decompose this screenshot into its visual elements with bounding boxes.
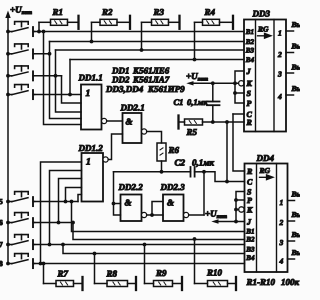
svg-text:0,1мк: 0,1мк bbox=[192, 158, 214, 168]
wire sw6 output bbox=[35, 222, 73, 224]
resistor R8 bbox=[95, 254, 137, 291]
wire DD1.1 out to DD2.1 in1 bbox=[107, 120, 123, 122]
svg-text:DD4: DD4 bbox=[256, 153, 275, 163]
svg-text:DD3: DD3 bbox=[252, 9, 271, 19]
junction C2 right bbox=[202, 170, 206, 174]
junction sw6 riser bbox=[57, 221, 61, 225]
wire sw8 output bus to DD4.B4 bbox=[35, 263, 245, 265]
svg-text:В2: В2 bbox=[245, 38, 255, 46]
wire DD3.C stub bbox=[233, 113, 244, 115]
svg-text:DD3,DD4: DD3,DD4 bbox=[105, 84, 144, 94]
svg-text:P: P bbox=[247, 99, 252, 108]
wire DD2.1 out to R6 bbox=[147, 132, 162, 144]
junction R1-bus bbox=[37, 30, 41, 34]
svg-text:DD2: DD2 bbox=[111, 75, 130, 85]
svg-text:R4: R4 bbox=[204, 7, 216, 17]
svg-text:R: R bbox=[246, 118, 253, 127]
svg-text:0,1мк: 0,1мк bbox=[187, 97, 208, 107]
DD3 output digits bbox=[277, 29, 282, 102]
+Upit arrow at DD4 K input bbox=[211, 219, 218, 223]
capacitor C1 bbox=[174, 83, 220, 122]
inversion bubble DD4 K bbox=[239, 207, 244, 212]
wire DD3 S stub bbox=[235, 92, 244, 94]
svg-text:DD1.1: DD1.1 bbox=[78, 73, 103, 83]
wire R6 bottom lead bbox=[161, 161, 163, 172]
wire DD2.2 out to DD2.3 bbox=[147, 214, 163, 216]
wire DD2.2 in1 stub bbox=[114, 203, 121, 205]
wire sw6 riser to DD1.2 in3 bbox=[59, 179, 82, 223]
capacitor C2 bbox=[175, 158, 215, 177]
svg-text:2: 2 bbox=[279, 218, 284, 227]
svg-text:В1: В1 bbox=[245, 28, 254, 36]
wire sw5 down to DD4.B1 bus bbox=[72, 202, 245, 232]
svg-text:В3: В3 bbox=[245, 246, 255, 254]
switch push-button at y=75.8 SB3 bbox=[8, 66, 35, 81]
junction rail-SB3 bbox=[6, 74, 10, 78]
resistor R3 bbox=[140, 7, 180, 52]
svg-text:DD1.2: DD1.2 bbox=[78, 143, 104, 153]
wire sw2 riser to B2 and down to DD1.1 in4 bbox=[50, 42, 82, 119]
gate DD1.2 4-input NOR bbox=[78, 143, 104, 202]
svg-text:R5: R5 bbox=[186, 127, 198, 137]
DD4 pin labels bbox=[245, 167, 255, 262]
wire sw5 output bbox=[35, 201, 78, 203]
svg-text:R7: R7 bbox=[57, 269, 69, 279]
DD3 output stubs Vyh1-4 bbox=[286, 30, 294, 32]
svg-text:DD2.3: DD2.3 bbox=[160, 182, 186, 192]
output bubble DD2.1 bbox=[142, 129, 147, 134]
output bubble DD2.3 bbox=[184, 212, 189, 217]
junction sw7 riser bbox=[48, 243, 52, 247]
junction rail-SB6 bbox=[6, 221, 10, 225]
junction sw3 riser bbox=[54, 74, 58, 78]
wire sw7 output bus bbox=[35, 244, 245, 246]
svg-text:S: S bbox=[247, 89, 252, 98]
wire R1 lead down bbox=[38, 22, 40, 31]
resistor R5 bbox=[179, 116, 203, 138]
switch push-button at y=222.5 SB6 bbox=[8, 213, 35, 228]
svg-text:В2: В2 bbox=[245, 236, 255, 244]
junction rail-SB4 bbox=[6, 93, 10, 97]
svg-text:C2: C2 bbox=[175, 158, 186, 168]
junction sw2 riser bbox=[48, 52, 52, 56]
resistor R9 bbox=[145, 245, 183, 291]
wire sw2 output bbox=[35, 53, 50, 55]
wire DD4 SPKJ bracket bbox=[236, 192, 245, 222]
junction rail-SB1 bbox=[6, 30, 10, 34]
wire DD3 JKSP bracket bbox=[235, 71, 244, 103]
gate DD1.1 4-input NOR bbox=[78, 73, 103, 130]
junction C1 bottom bbox=[211, 120, 215, 124]
wire R5 to DD3.R bbox=[203, 121, 245, 123]
svg-text:6: 6 bbox=[0, 218, 3, 227]
svg-text:В1: В1 bbox=[245, 228, 254, 236]
junction +U bracket J DD4 bbox=[234, 220, 238, 224]
svg-text:В4: В4 bbox=[245, 56, 255, 64]
svg-text:7: 7 bbox=[0, 240, 3, 249]
wire DD2.3 in1 bracket bbox=[152, 202, 163, 216]
svg-text:R: R bbox=[246, 167, 253, 176]
svg-text:1: 1 bbox=[280, 198, 284, 207]
resistor R4 bbox=[193, 7, 233, 61]
junction R10 tap bbox=[193, 237, 197, 241]
svg-text:2: 2 bbox=[277, 50, 282, 59]
junction sw7 branch bbox=[61, 243, 65, 247]
junction R2-bus bbox=[90, 40, 94, 44]
wire sw3 riser to B3 and down to DD1.1 in3 bbox=[56, 50, 82, 112]
junction R8 tap bbox=[93, 252, 97, 256]
values text R1-R10 100k bbox=[246, 277, 300, 287]
svg-text:Вы: Вы bbox=[291, 84, 301, 93]
svg-text:Вы: Вы bbox=[291, 248, 301, 257]
wire sw8 riser to DD1.2 in1 bbox=[41, 162, 82, 264]
wire vertical R-net to DD4.C line bbox=[226, 122, 228, 182]
gate DD2.1 NAND bbox=[120, 103, 145, 144]
svg-text:K: K bbox=[246, 205, 253, 214]
junction rail-SB8 bbox=[6, 262, 10, 266]
svg-text:В4: В4 bbox=[245, 254, 255, 262]
switch push-button at y=53.8 SB2 bbox=[8, 44, 35, 59]
wire sw5 riser to DD1.2 in4 bbox=[66, 188, 82, 202]
wire R4 lead down bbox=[194, 22, 196, 59]
svg-text:K: K bbox=[246, 79, 253, 88]
svg-text:DD2.1: DD2.1 bbox=[120, 103, 145, 113]
svg-text:5: 5 bbox=[0, 197, 3, 206]
wire C2 net down to DD2.2 input bbox=[114, 172, 121, 215]
resistor R2 bbox=[90, 7, 130, 43]
svg-text:Вы: Вы bbox=[291, 63, 301, 72]
svg-text:C1: C1 bbox=[174, 97, 184, 107]
junction rail-SB7 bbox=[6, 243, 10, 247]
wire sw6 down to DD4.B2 bus bbox=[73, 223, 245, 240]
svg-text:3: 3 bbox=[277, 70, 282, 79]
junction bracket K DD4 bbox=[234, 208, 238, 212]
IC DD3 K561IR9 register bbox=[244, 9, 286, 132]
svg-text:P: P bbox=[247, 196, 252, 205]
svg-text:RG: RG bbox=[257, 25, 269, 34]
resistor R10 bbox=[195, 239, 237, 290]
junction C1 top bbox=[211, 81, 215, 85]
svg-text:R1-R10: R1-R10 bbox=[246, 277, 276, 287]
junction rail-SB2 bbox=[6, 52, 10, 56]
svg-text:R10: R10 bbox=[206, 268, 223, 278]
inversion bubble DD3 K bbox=[239, 81, 244, 86]
gate DD2.2 NAND bbox=[118, 182, 144, 221]
svg-text:К561ИР9: К561ИР9 bbox=[147, 84, 185, 94]
svg-text:RG: RG bbox=[259, 166, 271, 175]
junction R3-bus bbox=[140, 48, 144, 52]
svg-text:100к: 100к bbox=[281, 277, 300, 287]
left power rail wire bbox=[7, 16, 9, 264]
wire sw1 branch to DD1.1 in5 bbox=[44, 32, 82, 125]
switch push-button at y=263.5 SB8 bbox=[8, 254, 35, 269]
output bubble DD1.1 bbox=[102, 118, 107, 123]
wire bus B3 to DD3.B3 bbox=[56, 49, 245, 51]
svg-text:R9: R9 bbox=[155, 268, 167, 278]
wire DD1.2 out up to DD2.1 in2 bbox=[108, 134, 122, 160]
resistor R1 bbox=[37, 7, 78, 33]
wire sw7 branch down to DD4.B3 bus bbox=[63, 245, 245, 254]
wire DD4 K stub bbox=[236, 209, 239, 211]
junction sw1 branch bbox=[42, 30, 46, 34]
svg-text:1: 1 bbox=[86, 158, 91, 168]
wire C2 net horizontal bbox=[114, 171, 191, 173]
svg-text:&: & bbox=[126, 117, 133, 127]
junction +U bracket K bbox=[233, 81, 237, 85]
junction R9 tap bbox=[143, 243, 147, 247]
svg-text:R6: R6 bbox=[168, 145, 180, 155]
junction bracket P DD4 bbox=[234, 198, 238, 202]
gate DD2.3 NAND bbox=[160, 182, 186, 221]
output bubble DD1.2 bbox=[103, 157, 108, 162]
wire vertical DD3.C to DD4.R bbox=[233, 114, 245, 171]
junction rail-SB5 bbox=[6, 200, 10, 204]
svg-text:К561ЛА7: К561ЛА7 bbox=[132, 75, 170, 85]
wire sw3 output bbox=[35, 75, 62, 77]
junction R-net vertical bbox=[225, 120, 229, 124]
junction sw5 riser bbox=[64, 200, 68, 204]
junction bracket S bbox=[233, 91, 237, 95]
svg-text:Вы: Вы bbox=[291, 230, 301, 239]
DD4 output digits bbox=[279, 198, 284, 266]
DD3 pin labels bbox=[245, 28, 255, 127]
svg-text:4: 4 bbox=[277, 92, 282, 101]
junction sw5 branch bbox=[70, 200, 74, 204]
wire R2 lead down bbox=[91, 22, 93, 41]
resistor R7 bbox=[44, 264, 83, 291]
svg-text:Вы: Вы bbox=[291, 210, 301, 219]
switch push-button at y=31.5 SB1 bbox=[8, 22, 35, 36]
junction sw8 riser bbox=[39, 262, 43, 266]
wire bus B2 to DD3.B2 bbox=[50, 41, 245, 43]
switch push-button at y=244.5 SB7 bbox=[8, 235, 35, 250]
svg-text:1: 1 bbox=[278, 29, 282, 38]
junction sw6 corner bbox=[71, 221, 75, 225]
parts list text bbox=[105, 66, 185, 95]
junction C-net vertical bbox=[225, 180, 229, 184]
wire sw5 to DD1.2 in5 bbox=[78, 195, 82, 202]
svg-text:R3: R3 bbox=[153, 7, 165, 17]
wire bus B4 to DD3.B4 bbox=[70, 59, 244, 61]
wire sw7 riser to DD1.2 in2 bbox=[50, 171, 82, 245]
wire sw4 riser to B4 bbox=[69, 60, 71, 95]
junction DD2.3 input bracket bbox=[150, 213, 154, 217]
wire sw3 to DD1.1 in2 bbox=[62, 76, 82, 103]
svg-text:&: & bbox=[167, 198, 174, 208]
svg-text:1: 1 bbox=[86, 89, 91, 99]
junction R7 tap bbox=[42, 262, 46, 266]
wire C2 to DD4.C bbox=[204, 172, 245, 182]
DD4 output stubs Vyh5-8 bbox=[288, 200, 295, 202]
svg-text:C: C bbox=[247, 177, 253, 186]
wire bus B1 sw1 to DD3.B1 bbox=[35, 31, 244, 33]
switch push-button at y=94.5 SB4 bbox=[8, 85, 35, 100]
wire DD4 P stub bbox=[236, 199, 245, 201]
svg-text:В3: В3 bbox=[245, 47, 255, 55]
+Upit arrow at DD3 K input bbox=[186, 81, 193, 85]
svg-text:8: 8 bbox=[0, 259, 3, 268]
wire R3 lead down bbox=[141, 22, 143, 50]
output bubble DD2.2 bbox=[142, 212, 147, 217]
svg-text:R8: R8 bbox=[106, 269, 118, 279]
switch push-button at y=201.5 SB5 bbox=[8, 192, 35, 207]
junction R4-bus bbox=[193, 58, 197, 62]
junction DD2.2 in1 bbox=[112, 202, 116, 206]
wire sw4 output to DD1.1 in1 bbox=[35, 94, 81, 96]
svg-text:3: 3 bbox=[279, 238, 284, 247]
junction R6-C2 net bbox=[160, 170, 164, 174]
svg-text:DD2.2: DD2.2 bbox=[118, 182, 144, 192]
svg-text:4: 4 bbox=[279, 257, 284, 266]
svg-text:&: & bbox=[125, 198, 132, 208]
junction sw4 riser bbox=[68, 93, 72, 97]
power rail arrow bbox=[5, 11, 10, 19]
wire C2 net down to DD2.3 out bbox=[203, 172, 205, 215]
wire DD2.3 out bbox=[189, 214, 204, 216]
svg-text:Вы: Вы bbox=[291, 190, 301, 199]
svg-text:Вы: Вы bbox=[291, 42, 301, 51]
IC DD4 K561IR9 register bbox=[245, 153, 288, 272]
svg-text:R2: R2 bbox=[101, 7, 113, 17]
resistor R6 bbox=[157, 143, 180, 161]
svg-text:R1: R1 bbox=[52, 7, 64, 17]
svg-text:Вы: Вы bbox=[291, 20, 301, 29]
